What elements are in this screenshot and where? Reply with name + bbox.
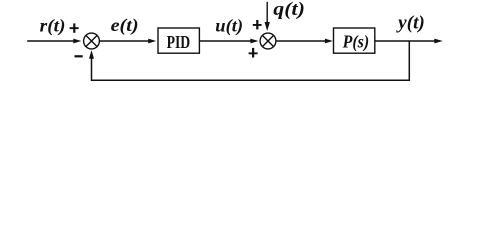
wire: e(t) line S1 to PID xyxy=(100,40,149,42)
svg-text:P(s): P(s) xyxy=(342,32,369,53)
svg-text:e(t): e(t) xyxy=(111,15,139,35)
block P(s) xyxy=(334,28,375,53)
svg-text:y(t): y(t) xyxy=(396,13,425,34)
wire: input r(t) line xyxy=(27,40,74,42)
arrowhead into PID xyxy=(148,39,156,44)
svg-text:r(t): r(t) xyxy=(40,15,66,35)
summing junction S1 (circle with X) xyxy=(84,33,100,49)
arrowhead down into S2 xyxy=(265,22,270,31)
svg-text:u(t): u(t) xyxy=(215,15,243,35)
minus sign at S1 xyxy=(75,55,83,57)
wire: feedback path (down, across bottom, up to S1) xyxy=(92,41,410,80)
plus sign at S1 xyxy=(70,23,79,32)
block PID xyxy=(158,28,199,53)
wire: output y(t) line xyxy=(375,40,435,42)
wire: u(t) line PID to S2 xyxy=(199,40,251,42)
arrowhead into S2 xyxy=(250,39,258,44)
plus sign at S2 left-bottom xyxy=(249,48,258,58)
arrowhead up into S1 xyxy=(89,50,94,59)
output arrowhead xyxy=(434,39,443,44)
arrowhead into P(s) xyxy=(325,39,333,44)
arrowhead into summing junction S1 xyxy=(73,39,81,44)
svg-text:PID: PID xyxy=(167,32,191,52)
svg-text:q(t): q(t) xyxy=(273,0,305,20)
summing junction S2 (circle with X) xyxy=(260,33,276,49)
wire: S2 to P(s) xyxy=(276,40,326,42)
plus sign at S2 top xyxy=(253,20,262,29)
wire: q(t) vertical disturbance input xyxy=(266,2,268,23)
